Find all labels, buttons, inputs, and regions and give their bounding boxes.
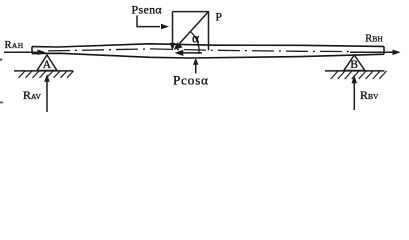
svg-text:B: B bbox=[350, 59, 358, 71]
leader arrow Pcosalpha bbox=[195, 64, 197, 74]
reaction arrow RBV bbox=[353, 82, 355, 110]
support A triangle bbox=[37, 55, 57, 71]
force parallelogram box bbox=[173, 12, 209, 51]
beam centerline (dash-dot) bbox=[48, 49, 350, 52]
reaction arrow RBH bbox=[350, 51, 393, 53]
component Psen: vertical arrow down left edge of box bbox=[172, 12, 174, 45]
svg-text:P: P bbox=[216, 12, 222, 24]
ground line B bbox=[325, 70, 385, 72]
leader arrow Psenalpha bbox=[137, 16, 160, 27]
beam outline bbox=[32, 44, 384, 58]
svg-text:α: α bbox=[192, 31, 200, 46]
svg-text:RBH: RBH bbox=[365, 33, 383, 44]
ground hatching A bbox=[19, 71, 74, 78]
svg-text:RAV: RAV bbox=[23, 88, 41, 102]
reaction arrow RAH bbox=[4, 51, 38, 53]
ground line A bbox=[14, 70, 73, 72]
ground hatching B bbox=[331, 71, 387, 79]
scan speck left edge lower bbox=[0, 102, 3, 104]
svg-text:RBV: RBV bbox=[360, 88, 379, 102]
angle arc alpha bbox=[191, 32, 199, 54]
svg-text:RAH: RAH bbox=[5, 40, 24, 51]
svg-text:Psenα: Psenα bbox=[132, 2, 163, 16]
svg-text:A: A bbox=[43, 59, 52, 71]
reaction arrow RAV bbox=[46, 81, 48, 113]
scan speck left edge upper bbox=[0, 59, 2, 61]
component Pcos: horizontal arrow pointing left at beam axis bbox=[182, 52, 202, 54]
force P diagonal arrow bbox=[180, 12, 209, 44]
svg-text:Pcosα: Pcosα bbox=[173, 73, 209, 88]
support B triangle bbox=[344, 55, 365, 71]
